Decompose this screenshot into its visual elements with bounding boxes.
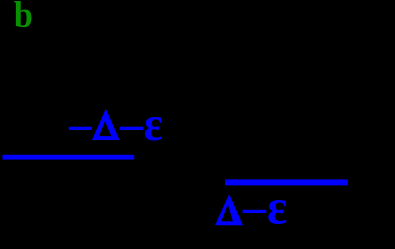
- upper label Delta: [92, 109, 120, 140]
- lower label minus: [243, 210, 267, 213]
- upper label minus 2: [120, 127, 144, 130]
- upper label minus 1: [69, 127, 92, 130]
- upper level label epsilon: [144, 100, 163, 149]
- lower label Delta: [215, 194, 243, 225]
- panel label b: [14, 0, 33, 33]
- right energy level line: [225, 179, 348, 185]
- lower level label epsilon: [267, 182, 287, 232]
- left energy level line: [3, 155, 135, 160]
